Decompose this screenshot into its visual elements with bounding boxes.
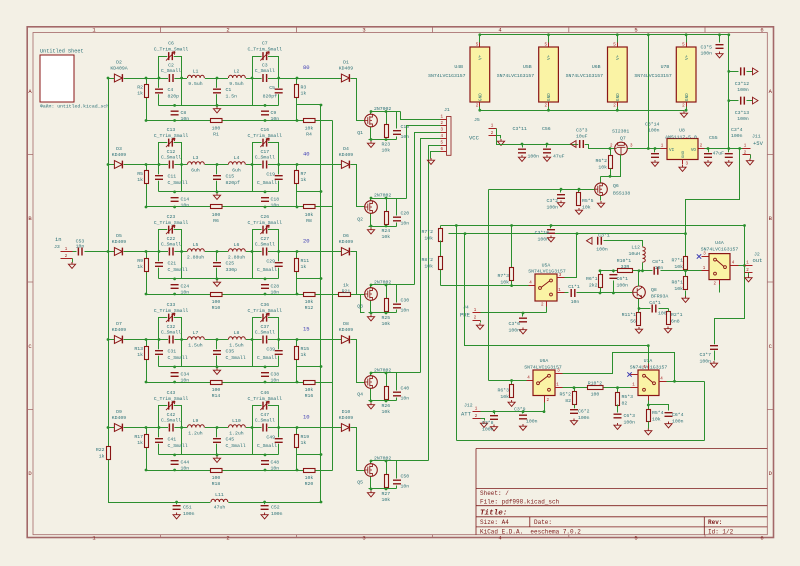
capacitor C4*1 [639,308,651,310]
pin 5 U4B [479,43,481,47]
svg-text:KD409: KD409 [112,327,127,333]
svg-text:R7: R7 [301,171,307,177]
ground U8 [679,165,686,171]
svg-text:L5: L5 [193,242,199,248]
junctions row1 [107,77,110,80]
wire drain line row4 [371,373,421,376]
svg-text:R12: R12 [305,305,314,311]
wire loop right [704,382,706,441]
svg-text:R17: R17 [134,434,143,440]
svg-text:C30: C30 [401,298,410,304]
svg-text:R6*3: R6*3 [497,388,509,394]
svg-text:C3*3: C3*3 [576,128,588,134]
wire bias line [601,270,618,272]
trimmer capacitor C13 [167,139,173,147]
svg-text:47uh: 47uh [214,505,226,511]
svg-text:10k: 10k [382,321,391,327]
ic U4B SN74LVC1G3157 [470,47,490,102]
svg-text:R5: R5 [137,171,143,177]
wire J1 pin6 to ground [431,152,441,159]
svg-text:GND: GND [616,93,621,101]
svg-text:D7: D7 [116,321,122,327]
svg-text:1k: 1k [137,177,143,183]
svg-text:C19: C19 [266,172,275,178]
svg-text:C3*11: C3*11 [513,126,528,132]
capacitor C3*3 [578,140,584,148]
wire Rq drop row4 [386,373,388,387]
resistor R9 [145,259,149,272]
wire node line row3 [159,278,279,280]
diode D2 [114,74,124,82]
svg-text:820pf: 820pf [226,180,241,186]
svg-text:10n: 10n [181,203,190,209]
svg-text:Title:: Title: [480,510,507,518]
wire lower bus row1 [147,120,333,122]
capacitor C35 [213,349,221,355]
wire U6A-U7A select drop x465 [465,234,649,371]
wire lower bus row5 [147,470,333,472]
capacitor C50 [393,479,401,485]
ground Q6 [597,201,604,207]
svg-text:U5A: U5A [542,263,551,269]
svg-text:C55: C55 [709,135,718,141]
diode D4 [341,160,351,168]
wire J11 pin2 gnd [750,155,752,159]
svg-text:1k: 1k [301,264,307,270]
wire drain line row2 [371,199,407,201]
wire Cq drop row1 [396,112,398,129]
svg-text:L2: L2 [234,69,240,75]
capacitor C32 [168,336,174,344]
wire Rb to bus row5 [297,454,321,456]
wire Q6 source gnd [600,196,602,201]
diode D6 [341,247,351,255]
svg-text:File: pdf998.kicad_sch: File: pdf998.kicad_sch [480,499,560,506]
svg-text:C_Trim_Small: C_Trim_Small [248,308,283,314]
svg-text:C21: C21 [168,261,177,267]
svg-text:L9: L9 [193,418,199,424]
svg-text:R3: R3 [301,85,307,91]
svg-text:100: 100 [212,299,221,305]
svg-text:R8*1: R8*1 [671,280,683,286]
svg-text:GND: GND [685,93,690,101]
svg-text:C46: C46 [260,390,269,396]
resistor R16 [304,381,316,385]
svg-text:Q6: Q6 [613,183,619,189]
svg-text:KD409: KD409 [339,415,354,421]
svg-text:+5V: +5V [753,140,764,147]
svg-text:C3*1: C3*1 [598,233,610,239]
capacitor C38 [261,371,269,377]
wire drain line row1 [371,112,401,115]
capacitor C3*4 [728,149,730,153]
diode D7 [114,335,124,343]
wire bias line 2 [633,270,653,272]
svg-text:R11: R11 [301,258,310,264]
svg-text:C10: C10 [401,124,410,130]
svg-text:R2: R2 [137,85,143,91]
inductor L2 [228,75,246,79]
svg-text:C_Small: C_Small [161,418,181,424]
svg-text:KD409: KD409 [112,415,127,421]
wire Q8 collector [638,271,640,287]
svg-text:2N7002: 2N7002 [374,456,391,462]
ground C51 [173,513,180,519]
svg-text:C1: C1 [226,87,232,93]
capacitor C6*3 [614,413,622,419]
svg-text:Rev:: Rev: [708,519,722,526]
capacitor C37 [262,336,268,344]
resistor R14 [211,381,223,385]
svg-text:1k: 1k [343,283,349,289]
svg-text:100n: 100n [528,154,540,160]
svg-text:C_Small: C_Small [161,242,181,248]
svg-text:R1: R1 [213,132,219,138]
capacitor C27 [262,248,268,256]
svg-text:Q5: Q5 [357,480,363,486]
wire C3*1 to L12 [604,241,643,247]
resistor R10 [211,293,223,297]
junctions Q row5 [370,460,373,463]
capacitor C8*1 [653,267,659,275]
capacitor C47 [262,424,268,432]
resistor R7*1 [685,234,687,257]
capacitor C1*1 [565,292,569,294]
svg-text:V+: V+ [685,54,690,60]
svg-text:C27: C27 [260,236,269,242]
svg-text:C32: C32 [167,324,176,330]
wire gate row3 [351,252,365,295]
capacitor C1 [213,88,221,94]
transistor Q7 SI2301 [615,142,628,155]
svg-text:10k: 10k [674,286,683,292]
capacitor C30 [393,303,401,309]
svg-text:47uF: 47uF [553,154,565,160]
svg-text:Файл: untitled.kicad_sch: Файл: untitled.kicad_sch [40,103,109,110]
svg-text:C_Trim_Small: C_Trim_Small [248,133,283,139]
wire Q7 gate node [601,155,621,177]
svg-text:R2*1: R2*1 [671,312,683,318]
wire Rq drop row5 [386,461,388,475]
svg-text:1k: 1k [301,177,307,183]
resistor R7*2 [440,226,442,229]
capacitor C3*2 [560,190,562,193]
svg-text:R18: R18 [212,481,221,487]
svg-text:100: 100 [212,126,221,132]
svg-text:Q1: Q1 [357,130,363,136]
capacitor C44 [171,459,179,465]
svg-text:1k: 1k [137,91,143,97]
resistor R6*1 [599,269,602,272]
svg-text:L4: L4 [234,155,240,161]
resistor R24 [385,212,389,225]
wire GND U4B [479,107,481,111]
svg-text:9.5uh: 9.5uh [229,81,244,87]
ground row4 mid [213,368,220,374]
wire loop bottom [457,440,705,442]
capacitor C29 [275,261,283,267]
wire +5V to bias drop [686,149,740,234]
svg-text:1k: 1k [301,352,307,358]
svg-text:Q4: Q4 [357,392,363,398]
svg-text:1k: 1k [301,91,307,97]
svg-text:C_Small: C_Small [257,267,277,273]
svg-text:L7: L7 [193,330,199,336]
inductor L1 [187,75,205,79]
svg-text:J5: J5 [474,117,480,123]
svg-text:C_Small: C_Small [168,180,188,186]
transistor Q6 BSS138 [595,183,608,196]
svg-text:100n: 100n [578,415,590,421]
svg-text:C47: C47 [260,412,269,418]
svg-text:C3: C3 [262,63,268,69]
svg-text:10n: 10n [181,378,190,384]
resistor R2 [145,85,149,98]
wire V+ drop x648 [648,35,650,149]
resistor R8*2 [440,241,442,257]
svg-text:KD409: KD409 [339,239,354,245]
svg-text:R6: R6 [213,218,219,224]
wire J4 pin1 line [481,312,547,314]
svg-text:10k: 10k [305,475,314,481]
svg-text:10k: 10k [598,165,607,171]
capacitor C24 [171,283,179,289]
wire Cq drop row3 [396,285,398,303]
pin 5 U6B [617,43,619,47]
wire gate row4 [351,340,365,383]
wire U6A pin1 line [563,387,631,389]
svg-text:C2: C2 [168,63,174,69]
wire mid cap drop row2 [216,165,218,192]
wire mid cap drop row1 [216,79,218,106]
wire gate row1 [351,79,365,121]
wire Rq drop row1 [386,112,388,125]
wire control line1 [441,225,745,227]
wire Q6 gate line [489,189,595,191]
capacitor C2 [168,74,174,82]
inductor L7 [187,336,205,340]
svg-text:R10*1: R10*1 [617,258,632,264]
capacitor C6*1 [612,269,615,272]
svg-text:L8: L8 [234,330,240,336]
ic U4A SN74LVC1G3157 [709,254,730,280]
capacitor C3*11 [522,145,524,148]
svg-text:C1*1: C1*1 [568,284,580,290]
svg-text:100n: 100n [271,511,283,517]
svg-text:J4: J4 [463,305,469,311]
svg-text:L12: L12 [631,245,640,251]
svg-text:10n: 10n [271,466,280,472]
svg-text:R5*2: R5*2 [559,392,571,398]
wire to J1 pin5 [429,146,441,461]
title block [476,449,767,535]
svg-text:C23: C23 [167,214,176,220]
wire vertical bus x332 [332,121,334,471]
svg-text:C12: C12 [167,149,176,155]
svg-text:R23: R23 [382,142,391,148]
wire U6A pin4 line [489,380,527,382]
svg-text:R21: R21 [342,289,351,295]
svg-text:10n: 10n [181,116,190,122]
svg-text:2N7002: 2N7002 [374,280,391,286]
resistor R15 [295,347,299,360]
svg-text:C17: C17 [260,149,269,155]
trimmer capacitor C16 [262,139,268,147]
wire rail row2 [109,164,342,166]
svg-text:C4: C4 [168,87,174,93]
svg-text:C_Small: C_Small [161,330,181,336]
svg-text:6uh: 6uh [191,167,200,173]
svg-text:D8: D8 [343,321,349,327]
svg-text:10n: 10n [271,203,280,209]
wire mid cap drop row4 [216,340,218,367]
svg-text:BFR93A: BFR93A [651,294,668,300]
svg-text:C6*1: C6*1 [617,276,629,282]
wire R21 branch [333,294,339,296]
resistor R7 [295,171,299,184]
svg-text:U6A: U6A [540,358,549,364]
wire to J1 pin4 [421,139,441,373]
trimmer capacitor C46 [262,402,268,410]
capacitor C28 [261,283,269,289]
svg-text:100n: 100n [700,51,712,57]
wire J4 pin2 gnd [480,321,482,323]
wire Rb to bus row4 [297,366,321,368]
svg-text:C3*9: C3*9 [514,407,526,413]
svg-text:U7B: U7B [661,64,670,70]
svg-text:C44: C44 [181,460,190,466]
wire Q8 emitter [638,299,640,309]
ground R8*1 [682,296,689,302]
wire trim loop right row3 [253,230,279,279]
svg-text:R7*3: R7*3 [497,273,509,279]
wire U5A gnd leg [546,307,548,313]
svg-text:VCC: VCC [469,135,480,142]
capacitor C56 [546,145,548,148]
svg-text:20: 20 [303,238,310,245]
svg-text:100n: 100n [699,359,711,365]
wire Ra drop row1 [146,79,148,121]
svg-text:10n: 10n [271,116,280,122]
capacitor C3 [262,74,268,82]
wire J12 pin1 line [481,411,545,413]
wire trim loop right row4 [253,318,279,367]
svg-text:C_Small: C_Small [255,242,275,248]
resistor R5 [145,171,149,184]
svg-text:C34: C34 [181,372,190,378]
inductor L4 [228,161,246,165]
capacitor C18 [261,196,269,202]
svg-text:2: 2 [226,27,229,34]
resistor R11*1 [637,313,641,326]
resistor R11 [295,259,299,272]
wire VCC rail [497,129,589,145]
svg-text:1.2uh: 1.2uh [188,430,203,436]
wire GND U6B [617,107,619,111]
svg-text:R11*1: R11*1 [622,312,637,318]
capacitor C14 [171,196,179,202]
ground U7B rail [680,111,687,117]
wire L12 bottom [642,263,644,271]
wire trim loop left row3 [159,230,182,279]
svg-text:3: 3 [362,27,365,34]
svg-text:U4B: U4B [454,64,463,70]
svg-text:D9: D9 [116,409,122,415]
wire node line row1 [159,105,279,107]
svg-text:C11: C11 [168,174,177,180]
svg-text:J3: J3 [54,244,60,250]
svg-text:KD409: KD409 [112,239,127,245]
svg-text:C_Trim_Small: C_Trim_Small [154,133,189,139]
svg-text:D4: D4 [343,146,349,152]
svg-text:C45: C45 [226,437,235,443]
wire trim loop left row1 [159,57,182,106]
capacitor C10 [393,129,401,135]
wire node line row5 [159,454,279,456]
wire Ra drop row4 [146,340,148,383]
diode D10 [341,423,351,431]
resistor R5*2 [573,386,576,389]
capacitor C34 [171,371,179,377]
svg-text:1k: 1k [137,440,143,446]
ground Q row5 [367,491,374,497]
capacitor C40 [393,391,401,397]
wire gate row5 [351,428,365,471]
inductor L9 [187,424,205,428]
resistor R27 [385,475,389,488]
svg-text:Date:: Date: [534,519,552,526]
svg-text:L11: L11 [215,492,224,498]
svg-text:C_Small: C_Small [226,443,246,449]
wire to J1 pin3 [415,133,441,285]
svg-text:330p: 330p [226,267,238,273]
capacitor C20 [393,216,401,222]
wire rail row1 [109,78,342,80]
wire q-bottom row3 [369,312,397,314]
svg-text:1.5uh: 1.5uh [188,342,203,348]
capacitor C52 [264,503,266,505]
junctions Q row2 [370,197,373,200]
capacitor C3*8 [493,410,496,413]
svg-text:C3*12: C3*12 [735,81,750,87]
capacitor C3*10 [550,226,552,229]
svg-text:10: 10 [303,414,310,421]
resistor R6*3 [510,379,513,382]
svg-text:V+: V+ [616,54,621,60]
svg-text:D10: D10 [342,409,351,415]
svg-text:C18: C18 [271,197,280,203]
svg-text:100n: 100n [526,419,538,425]
wire J3 pin2 to ground [72,259,74,263]
wire Q7 drain to U8 [628,148,661,150]
capacitor C3*14 [654,149,656,153]
svg-text:R27: R27 [382,491,391,497]
wire J12 pin2 gnd [481,419,485,421]
capacitor C41 [155,437,163,443]
svg-text:C_Small: C_Small [255,155,275,161]
svg-text:10uF: 10uF [576,134,588,140]
svg-text:U5B: U5B [523,64,532,70]
wire source row1 [370,127,372,140]
svg-text:C49: C49 [266,435,275,441]
svg-text:10k: 10k [305,387,314,393]
resistor R1 [211,119,223,123]
svg-text:10k: 10k [674,264,683,270]
wire bottom bus [109,460,321,503]
svg-text:U4A: U4A [715,240,724,246]
svg-text:C25: C25 [226,261,235,267]
svg-text:33R: 33R [621,264,630,270]
